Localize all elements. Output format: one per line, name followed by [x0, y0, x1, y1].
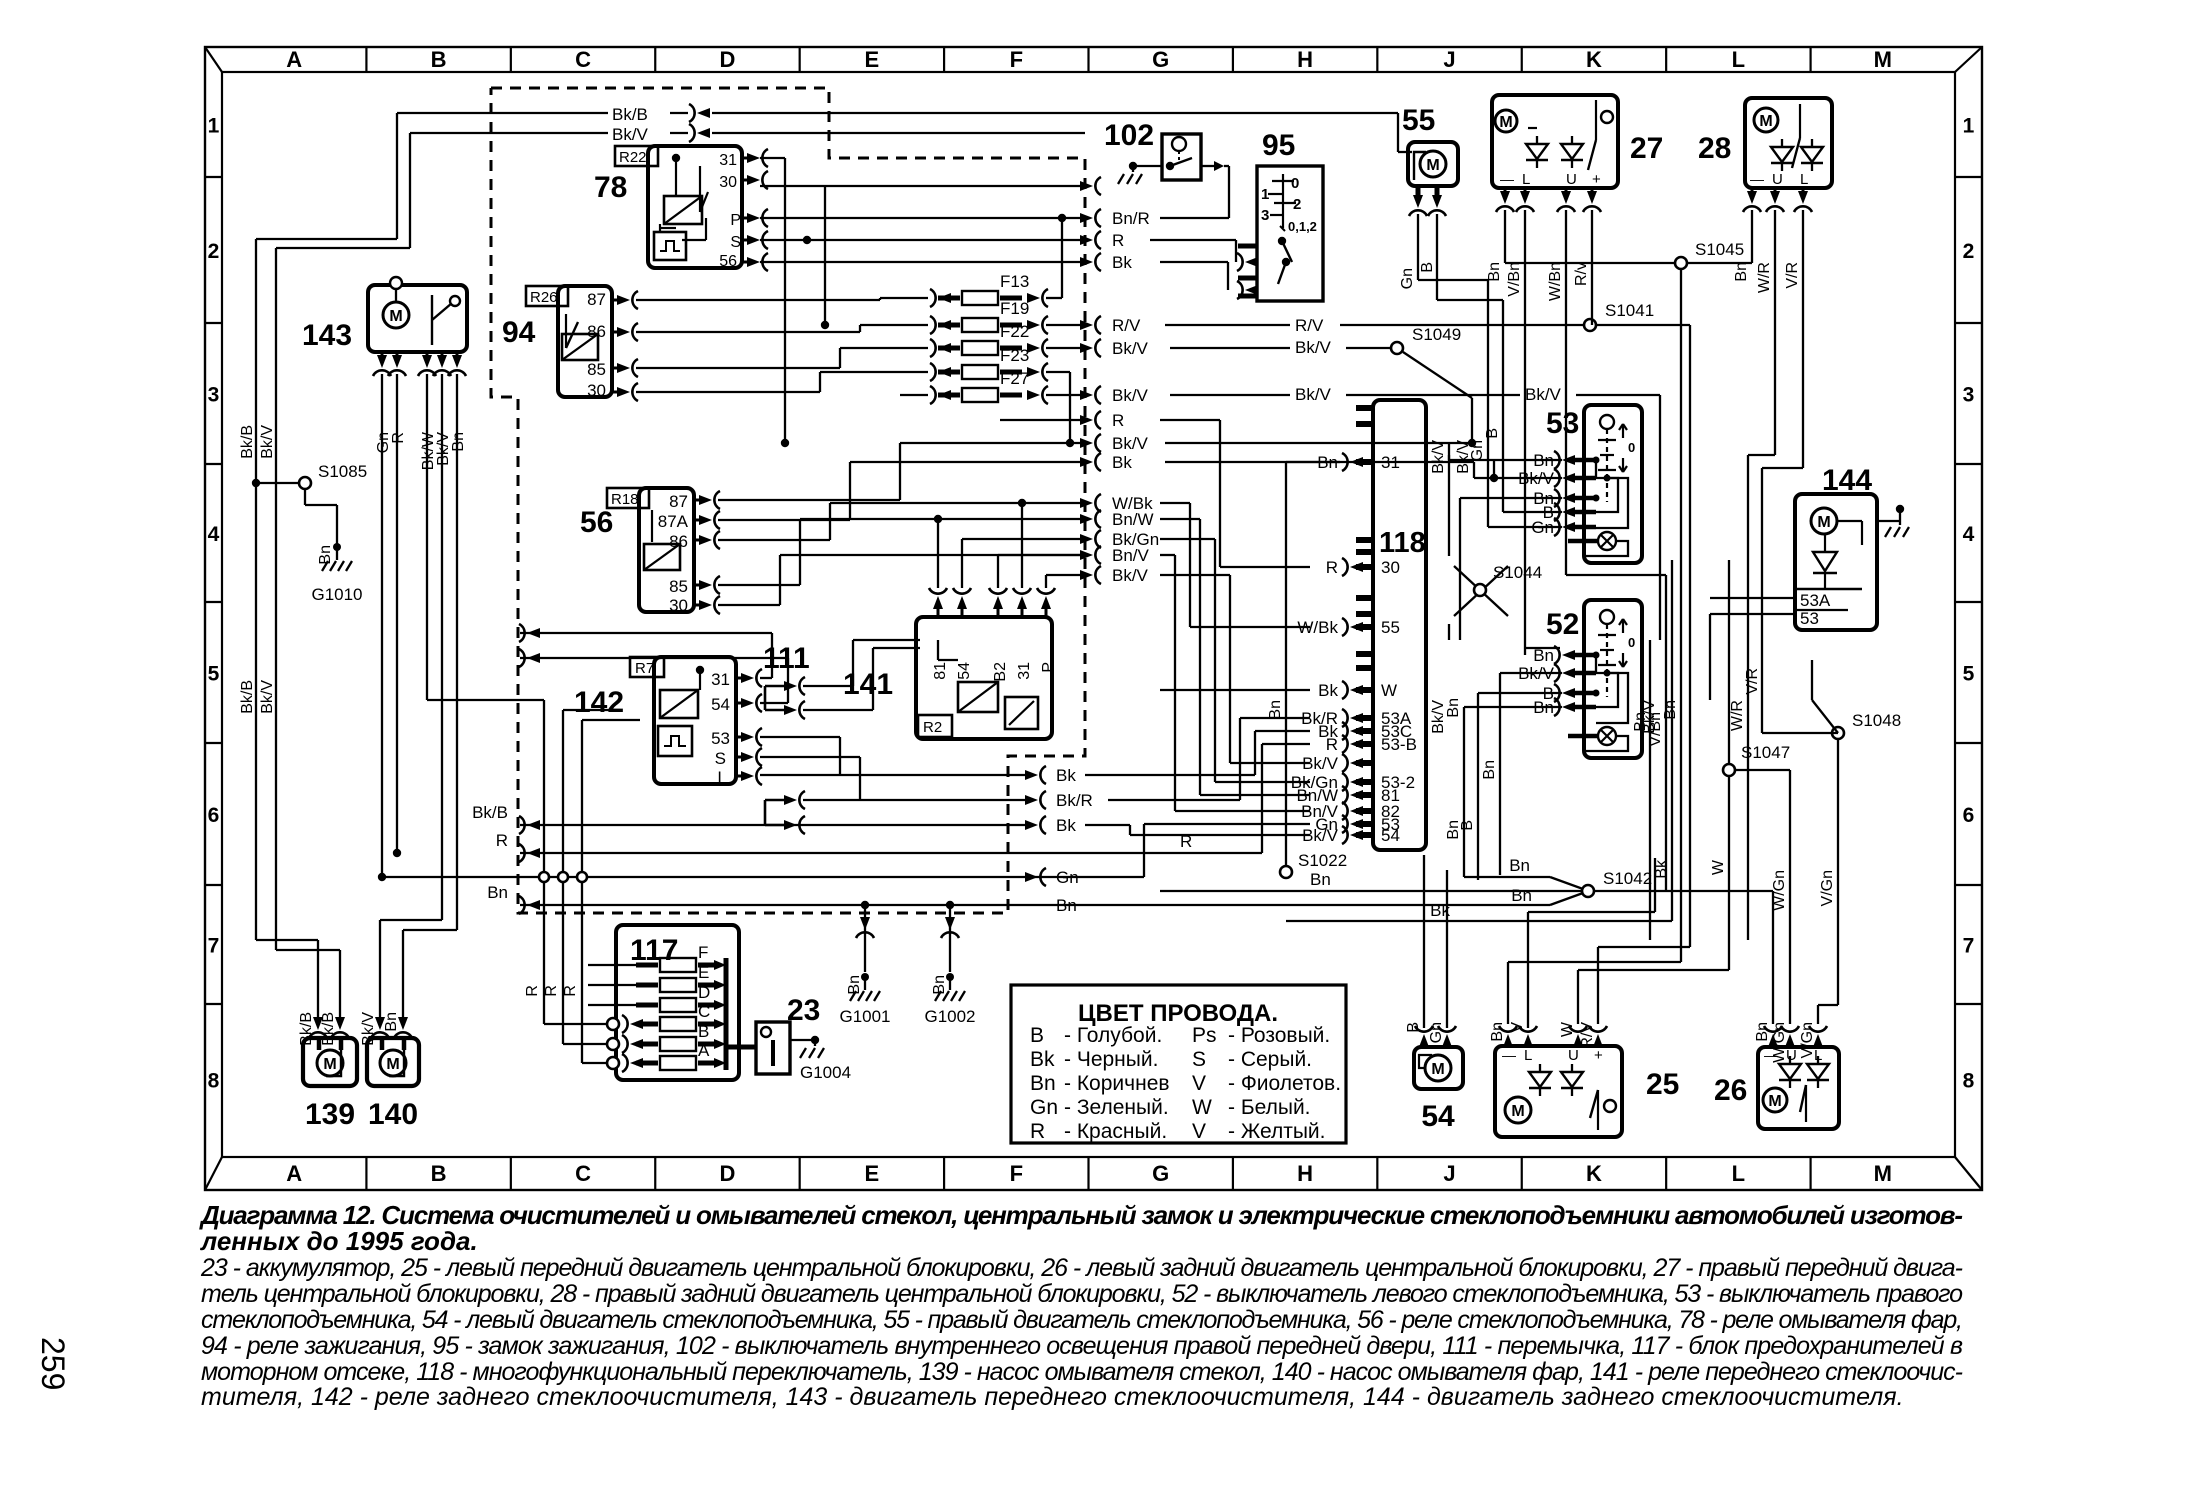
svg-text:M: M: [1874, 1161, 1892, 1186]
svg-text:V/Gn: V/Gn: [1819, 870, 1836, 906]
svg-text:7: 7: [208, 935, 220, 958]
svg-text:- Фиолетов.: - Фиолетов.: [1228, 1072, 1341, 1095]
svg-text:F: F: [698, 943, 708, 962]
svg-text:F22: F22: [1000, 322, 1029, 341]
svg-text:Bn: Bn: [1489, 1022, 1506, 1042]
svg-text:R/V: R/V: [1579, 1022, 1596, 1049]
svg-text:Bn: Bn: [450, 432, 467, 452]
svg-text:C: C: [698, 1002, 710, 1021]
svg-text:G: G: [1152, 47, 1169, 72]
svg-text:Bn: Bn: [1533, 646, 1554, 665]
svg-text:S1022: S1022: [1298, 851, 1347, 870]
svg-text:87: 87: [669, 492, 688, 511]
svg-text:31: 31: [719, 152, 737, 169]
svg-text:94 - реле зажигания, 95 - замо: 94 - реле зажигания, 95 - замок зажигани…: [201, 1332, 1963, 1360]
svg-text:W/R: W/R: [1756, 262, 1773, 293]
svg-text:0: 0: [1628, 440, 1635, 455]
svg-text:C: C: [575, 47, 591, 72]
svg-text:S1041: S1041: [1605, 301, 1654, 320]
svg-text:Bk: Bk: [1112, 453, 1132, 472]
svg-text:S: S: [1192, 1048, 1206, 1071]
svg-text:102: 102: [1104, 119, 1154, 152]
svg-text:- Розовый.: - Розовый.: [1228, 1024, 1330, 1047]
svg-text:31: 31: [1016, 662, 1033, 680]
svg-text:B: B: [1405, 1022, 1422, 1033]
svg-text:Bk/V: Bk/V: [1112, 434, 1149, 453]
svg-text:30: 30: [587, 381, 606, 400]
svg-text:S1049: S1049: [1412, 325, 1461, 344]
svg-text:W/Gn: W/Gn: [1771, 1022, 1788, 1063]
svg-text:54: 54: [1381, 826, 1400, 845]
svg-text:G1010: G1010: [311, 585, 362, 604]
svg-text:26: 26: [1714, 1074, 1747, 1107]
svg-text:W: W: [1710, 859, 1727, 875]
svg-text:R: R: [1112, 411, 1124, 430]
svg-text:5: 5: [1963, 663, 1975, 686]
svg-text:56: 56: [580, 506, 613, 539]
svg-text:B: B: [431, 1161, 447, 1186]
svg-text:B: B: [1030, 1024, 1044, 1047]
svg-text:Bk/B: Bk/B: [612, 105, 648, 124]
svg-text:R/v: R/v: [1573, 262, 1590, 286]
svg-text:- Черный.: - Черный.: [1064, 1048, 1158, 1071]
svg-text:53: 53: [1800, 609, 1819, 628]
svg-text:U: U: [1566, 171, 1577, 188]
svg-text:Bk/B: Bk/B: [239, 425, 256, 459]
svg-text:S1045: S1045: [1695, 240, 1744, 259]
svg-text:B: B: [431, 47, 447, 72]
svg-text:F: F: [1010, 47, 1023, 72]
svg-text:M: M: [386, 1056, 399, 1073]
svg-text:0: 0: [1628, 635, 1635, 650]
svg-text:Gn: Gn: [1056, 868, 1079, 887]
svg-text:4: 4: [208, 523, 220, 546]
svg-text:87A: 87A: [658, 512, 689, 531]
svg-text:G: G: [1152, 1161, 1169, 1186]
svg-text:3: 3: [1963, 384, 1975, 407]
svg-text:M: M: [1511, 1103, 1524, 1120]
svg-text:A: A: [286, 47, 302, 72]
svg-text:Bk/V: Bk/V: [259, 425, 276, 459]
svg-text:2: 2: [1963, 240, 1975, 263]
svg-text:F19: F19: [1000, 299, 1029, 318]
svg-text:- Желтый.: - Желтый.: [1228, 1120, 1325, 1143]
svg-text:53-B: 53-B: [1381, 735, 1417, 754]
svg-text:V/R: V/R: [1744, 668, 1761, 695]
svg-text:A: A: [698, 1041, 710, 1060]
svg-text:Bk: Bk: [1056, 816, 1076, 835]
svg-text:V: V: [1192, 1072, 1206, 1095]
svg-text:- Голубой.: - Голубой.: [1064, 1024, 1162, 1047]
svg-text:85: 85: [587, 360, 606, 379]
svg-text:Bk/B: Bk/B: [472, 803, 508, 822]
svg-text:Bk/V: Bk/V: [1525, 385, 1562, 404]
svg-text:2: 2: [1293, 196, 1301, 213]
svg-text:ЦВЕТ ПРОВОДА.: ЦВЕТ ПРОВОДА.: [1078, 1000, 1278, 1027]
svg-text:моторном отсеке, 118 - многофу: моторном отсеке, 118 - многофункциональн…: [201, 1358, 1963, 1386]
svg-text:86: 86: [669, 532, 688, 551]
svg-text:Bk/V: Bk/V: [1112, 386, 1149, 405]
svg-text:- Коричнев: - Коричнев: [1064, 1072, 1170, 1095]
svg-text:Bn: Bn: [1662, 700, 1679, 720]
svg-text:тителя, 142 - реле заднего сте: тителя, 142 - реле заднего стеклоочистит…: [201, 1383, 1904, 1411]
svg-text:140: 140: [368, 1098, 418, 1131]
svg-text:R: R: [1326, 735, 1338, 754]
svg-text:L: L: [1522, 171, 1530, 188]
svg-text:S1048: S1048: [1852, 711, 1901, 730]
svg-text:Bn: Bn: [1754, 1022, 1771, 1042]
svg-text:P: P: [730, 212, 741, 229]
svg-text:Bk/V: Bk/V: [1112, 339, 1149, 358]
svg-text:R2: R2: [923, 719, 942, 736]
svg-text:F13: F13: [1000, 272, 1029, 291]
svg-text:31: 31: [1381, 453, 1400, 472]
svg-text:J: J: [1443, 47, 1455, 72]
svg-text:- Серый.: - Серый.: [1228, 1048, 1312, 1071]
svg-text:Bn: Bn: [1445, 698, 1462, 718]
svg-text:R: R: [1326, 558, 1338, 577]
svg-text:Bk: Bk: [1318, 681, 1338, 700]
svg-text:W/Bn: W/Bn: [1547, 262, 1564, 301]
svg-text:R: R: [1112, 231, 1124, 250]
svg-text:Bn: Bn: [383, 1012, 400, 1032]
svg-text:S: S: [715, 749, 726, 768]
svg-text:Bk/V: Bk/V: [612, 125, 649, 144]
svg-text:D: D: [720, 47, 736, 72]
svg-text:Bn: Bn: [317, 545, 334, 565]
svg-text:28: 28: [1698, 132, 1731, 165]
svg-text:—: —: [1750, 171, 1764, 187]
svg-text:- Красный.: - Красный.: [1064, 1120, 1167, 1143]
svg-text:H: H: [1297, 47, 1313, 72]
svg-text:I: I: [717, 768, 722, 787]
svg-text:U: U: [1568, 1047, 1579, 1064]
svg-text:6: 6: [208, 804, 220, 827]
svg-text:3: 3: [208, 384, 220, 407]
svg-text:V: V: [1509, 1022, 1526, 1033]
svg-text:B: B: [1484, 428, 1501, 439]
svg-text:Bn: Bn: [1481, 760, 1498, 780]
svg-text:55: 55: [1402, 104, 1435, 137]
svg-text:—: —: [1502, 1047, 1516, 1063]
svg-text:V/Bn: V/Bn: [1506, 262, 1523, 297]
svg-text:Bn: Bn: [1030, 1072, 1056, 1095]
svg-text:Gn: Gn: [1531, 518, 1554, 537]
svg-text:R22: R22: [619, 149, 647, 166]
svg-text:78: 78: [594, 171, 627, 204]
svg-text:Bk/V: Bk/V: [259, 680, 276, 714]
svg-text:K: K: [1586, 1161, 1602, 1186]
svg-text:M: M: [1426, 157, 1439, 174]
svg-text:W: W: [1559, 1021, 1576, 1037]
svg-text:R: R: [524, 985, 541, 997]
svg-text:M: M: [1431, 1061, 1444, 1078]
svg-text:W: W: [1381, 681, 1397, 700]
svg-text:L: L: [1524, 1047, 1532, 1064]
svg-text:+: +: [1592, 171, 1601, 188]
svg-text:8: 8: [208, 1070, 220, 1093]
svg-text:142: 142: [574, 686, 624, 719]
svg-text:23 - аккумулятор, 25 - левый п: 23 - аккумулятор, 25 - левый передний дв…: [200, 1254, 1963, 1282]
svg-text:M: M: [1759, 113, 1772, 130]
svg-text:M: M: [1817, 514, 1830, 531]
svg-text:25: 25: [1646, 1068, 1679, 1101]
svg-text:P: P: [1040, 662, 1057, 673]
svg-text:6: 6: [1963, 804, 1975, 827]
svg-text:B2: B2: [992, 662, 1009, 682]
svg-text:111: 111: [763, 642, 810, 675]
svg-text:B: B: [1459, 820, 1476, 831]
svg-text:Bn: Bn: [1486, 262, 1503, 282]
svg-text:117: 117: [630, 934, 678, 967]
svg-text:81: 81: [932, 662, 949, 680]
svg-text:D: D: [698, 983, 710, 1002]
svg-text:30: 30: [669, 596, 688, 615]
svg-text:Gn: Gn: [1428, 1022, 1445, 1043]
svg-text:L: L: [1732, 1161, 1745, 1186]
svg-text:Bn/R: Bn/R: [1112, 209, 1150, 228]
svg-text:27: 27: [1630, 132, 1663, 165]
svg-text:1: 1: [1963, 115, 1975, 138]
svg-text:86: 86: [587, 322, 606, 341]
svg-text:- Зеленый.: - Зеленый.: [1064, 1096, 1169, 1119]
svg-text:55: 55: [1381, 618, 1400, 637]
svg-text:143: 143: [302, 319, 352, 352]
svg-text:тель центральной блокировки, 2: тель центральной блокировки, 28 - правый…: [201, 1280, 1963, 1308]
svg-text:A: A: [286, 1161, 302, 1186]
svg-text:Gn: Gn: [1399, 268, 1416, 289]
svg-text:L: L: [1800, 171, 1808, 188]
svg-text:—: —: [1500, 171, 1514, 187]
svg-text:53: 53: [1546, 407, 1579, 440]
svg-text:Bk/R: Bk/R: [1056, 791, 1093, 810]
svg-text:S: S: [730, 234, 741, 251]
svg-text:W/R: W/R: [1729, 700, 1746, 731]
svg-text:118: 118: [1379, 527, 1426, 559]
svg-text:R: R: [562, 985, 579, 997]
svg-text:K: K: [1586, 47, 1602, 72]
svg-text:139: 139: [305, 1098, 355, 1131]
svg-text:F23: F23: [1000, 346, 1029, 365]
svg-text:31: 31: [711, 670, 730, 689]
svg-text:23: 23: [787, 994, 820, 1027]
svg-text:V: V: [1192, 1120, 1206, 1143]
svg-text:E: E: [865, 1161, 880, 1186]
svg-text:M: M: [323, 1056, 336, 1073]
svg-text:J: J: [1443, 1161, 1455, 1186]
svg-text:S1085: S1085: [318, 462, 367, 481]
svg-text:85: 85: [669, 577, 688, 596]
svg-text:R: R: [390, 432, 407, 444]
svg-text:Bk: Bk: [1056, 766, 1076, 785]
svg-text:Bk/B: Bk/B: [320, 1012, 337, 1046]
svg-text:Bk: Bk: [1030, 1048, 1055, 1071]
svg-text:Bn: Bn: [1509, 856, 1530, 875]
svg-text:Bn: Bn: [1310, 870, 1331, 889]
svg-text:95: 95: [1262, 129, 1295, 162]
svg-text:52: 52: [1546, 608, 1579, 641]
svg-text:H: H: [1297, 1161, 1313, 1186]
svg-text:5: 5: [208, 663, 220, 686]
svg-text:4: 4: [1963, 523, 1975, 546]
svg-text:Bn/V: Bn/V: [1112, 546, 1150, 565]
svg-text:M: M: [1874, 47, 1892, 72]
svg-text:R: R: [543, 985, 560, 997]
svg-text:0: 0: [1291, 175, 1299, 192]
svg-text:87: 87: [587, 290, 606, 309]
svg-text:W/Gn: W/Gn: [1771, 870, 1788, 911]
svg-text:Bn: Bn: [487, 883, 508, 902]
svg-text:Bk/V: Bk/V: [1112, 566, 1149, 585]
svg-text:Bn: Bn: [1056, 896, 1077, 915]
svg-text:S1044: S1044: [1493, 563, 1542, 582]
svg-text:R/V: R/V: [1295, 316, 1324, 335]
svg-text:30: 30: [1381, 558, 1400, 577]
svg-text:53: 53: [711, 729, 730, 748]
svg-text:G1001: G1001: [839, 1007, 890, 1026]
svg-text:B: B: [698, 1022, 709, 1041]
svg-text:259: 259: [35, 1337, 71, 1390]
svg-text:Bk/V: Bk/V: [1430, 440, 1447, 474]
svg-text:F27: F27: [1000, 369, 1029, 388]
svg-text:C: C: [575, 1161, 591, 1186]
svg-text:Bn/W: Bn/W: [1112, 510, 1154, 529]
svg-text:W: W: [1192, 1096, 1212, 1119]
svg-text:S1042: S1042: [1603, 869, 1652, 888]
svg-text:7: 7: [1963, 935, 1975, 958]
svg-text:ленных до 1995 года.: ленных до 1995 года.: [199, 1226, 478, 1256]
svg-text:R7: R7: [635, 660, 654, 677]
svg-text:94: 94: [502, 316, 536, 349]
svg-text:Bk: Bk: [1112, 253, 1132, 272]
svg-text:G1004: G1004: [800, 1063, 851, 1082]
svg-text:30: 30: [719, 174, 737, 191]
svg-text:F: F: [1010, 1161, 1023, 1186]
svg-text:Bn: Bn: [1733, 262, 1750, 282]
svg-text:- Белый.: - Белый.: [1228, 1096, 1311, 1119]
svg-text:Bn: Bn: [1267, 700, 1284, 720]
svg-text:54: 54: [956, 662, 973, 680]
svg-text:D: D: [720, 1161, 736, 1186]
svg-text:E: E: [698, 963, 709, 982]
svg-text:54: 54: [711, 695, 730, 714]
svg-text:2: 2: [208, 240, 220, 263]
svg-text:53A: 53A: [1800, 591, 1831, 610]
svg-text:M: M: [1499, 114, 1512, 131]
svg-text:1: 1: [208, 115, 220, 138]
svg-text:141: 141: [843, 668, 893, 701]
svg-text:Bk/V: Bk/V: [1295, 385, 1332, 404]
svg-text:3: 3: [1261, 207, 1269, 224]
svg-text:B: B: [1419, 262, 1436, 273]
svg-text:R: R: [496, 831, 508, 850]
svg-text:R18: R18: [611, 491, 639, 508]
svg-text:V/Gn: V/Gn: [1799, 1022, 1816, 1058]
svg-text:Gn: Gn: [1030, 1096, 1058, 1119]
svg-text:R/V: R/V: [1112, 316, 1141, 335]
svg-text:G1002: G1002: [924, 1007, 975, 1026]
svg-text:Bk/B: Bk/B: [239, 680, 256, 714]
svg-text:R26: R26: [530, 289, 558, 306]
svg-text:M: M: [389, 308, 402, 325]
svg-text:U: U: [1772, 171, 1783, 188]
svg-text:Bk/V: Bk/V: [1455, 440, 1472, 474]
svg-text:L: L: [1732, 47, 1745, 72]
svg-text:R: R: [1030, 1120, 1045, 1143]
svg-text:V/R: V/R: [1784, 262, 1801, 289]
svg-text:E: E: [865, 47, 880, 72]
svg-text:M: M: [1768, 1093, 1781, 1110]
svg-text:стеклоподъемника, 54 - левый д: стеклоподъемника, 54 - левый двигатель с…: [201, 1306, 1963, 1334]
svg-text:Bn: Bn: [1511, 886, 1532, 905]
svg-text:S1047: S1047: [1741, 743, 1790, 762]
svg-text:8: 8: [1963, 1070, 1975, 1093]
svg-text:Ps: Ps: [1192, 1024, 1217, 1047]
svg-text:56: 56: [719, 253, 737, 270]
svg-text:0,1,2: 0,1,2: [1288, 219, 1317, 234]
svg-text:Bk/V: Bk/V: [1295, 338, 1332, 357]
svg-text:54: 54: [1421, 1100, 1455, 1133]
